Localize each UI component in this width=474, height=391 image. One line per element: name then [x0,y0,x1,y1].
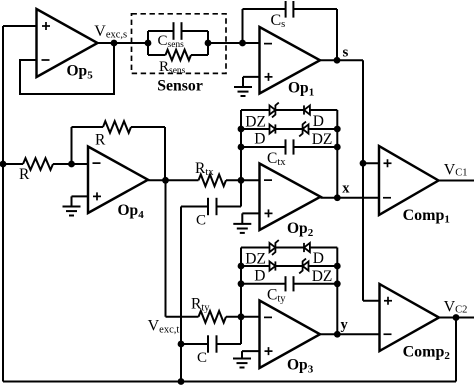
svg-text:D: D [313,113,324,130]
svg-text:DZ: DZ [312,131,333,148]
svg-text:DZ: DZ [245,251,266,268]
svg-text:x: x [342,180,350,196]
svg-text:R: R [19,166,30,183]
svg-text:y: y [341,317,349,333]
svg-text:R: R [95,131,106,148]
svg-text:Comp2: Comp2 [403,344,451,363]
svg-text:DZ: DZ [312,268,333,285]
svg-text:C: C [197,350,207,366]
svg-text:Comp1: Comp1 [403,207,450,226]
svg-text:Sensor: Sensor [157,78,203,95]
svg-text:D: D [254,130,265,147]
svg-text:D: D [313,250,324,267]
svg-text:DZ: DZ [245,114,266,131]
svg-text:D: D [254,268,265,285]
svg-text:s: s [343,44,349,60]
svg-text:C: C [196,212,206,228]
